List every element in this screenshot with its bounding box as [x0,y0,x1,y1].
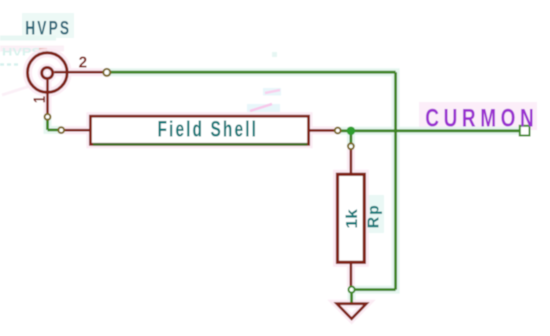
svg-text:HVPS: HVPS [25,19,71,40]
svg-text:CURMON: CURMON [425,105,538,133]
svg-text:Field Shell: Field Shell [158,116,259,141]
svg-text:2: 2 [79,54,88,71]
svg-text:Rp: Rp [365,203,382,228]
svg-text:1k: 1k [344,209,361,229]
svg-text:1: 1 [30,96,49,103]
